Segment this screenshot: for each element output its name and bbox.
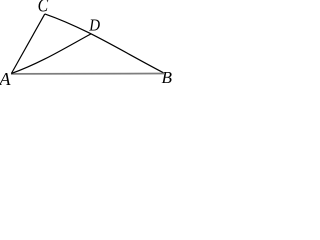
svg-text:C: C <box>38 0 49 17</box>
svg-text:D: D <box>88 16 100 35</box>
svg-text:A: A <box>0 69 12 85</box>
svg-text:B: B <box>162 68 173 85</box>
